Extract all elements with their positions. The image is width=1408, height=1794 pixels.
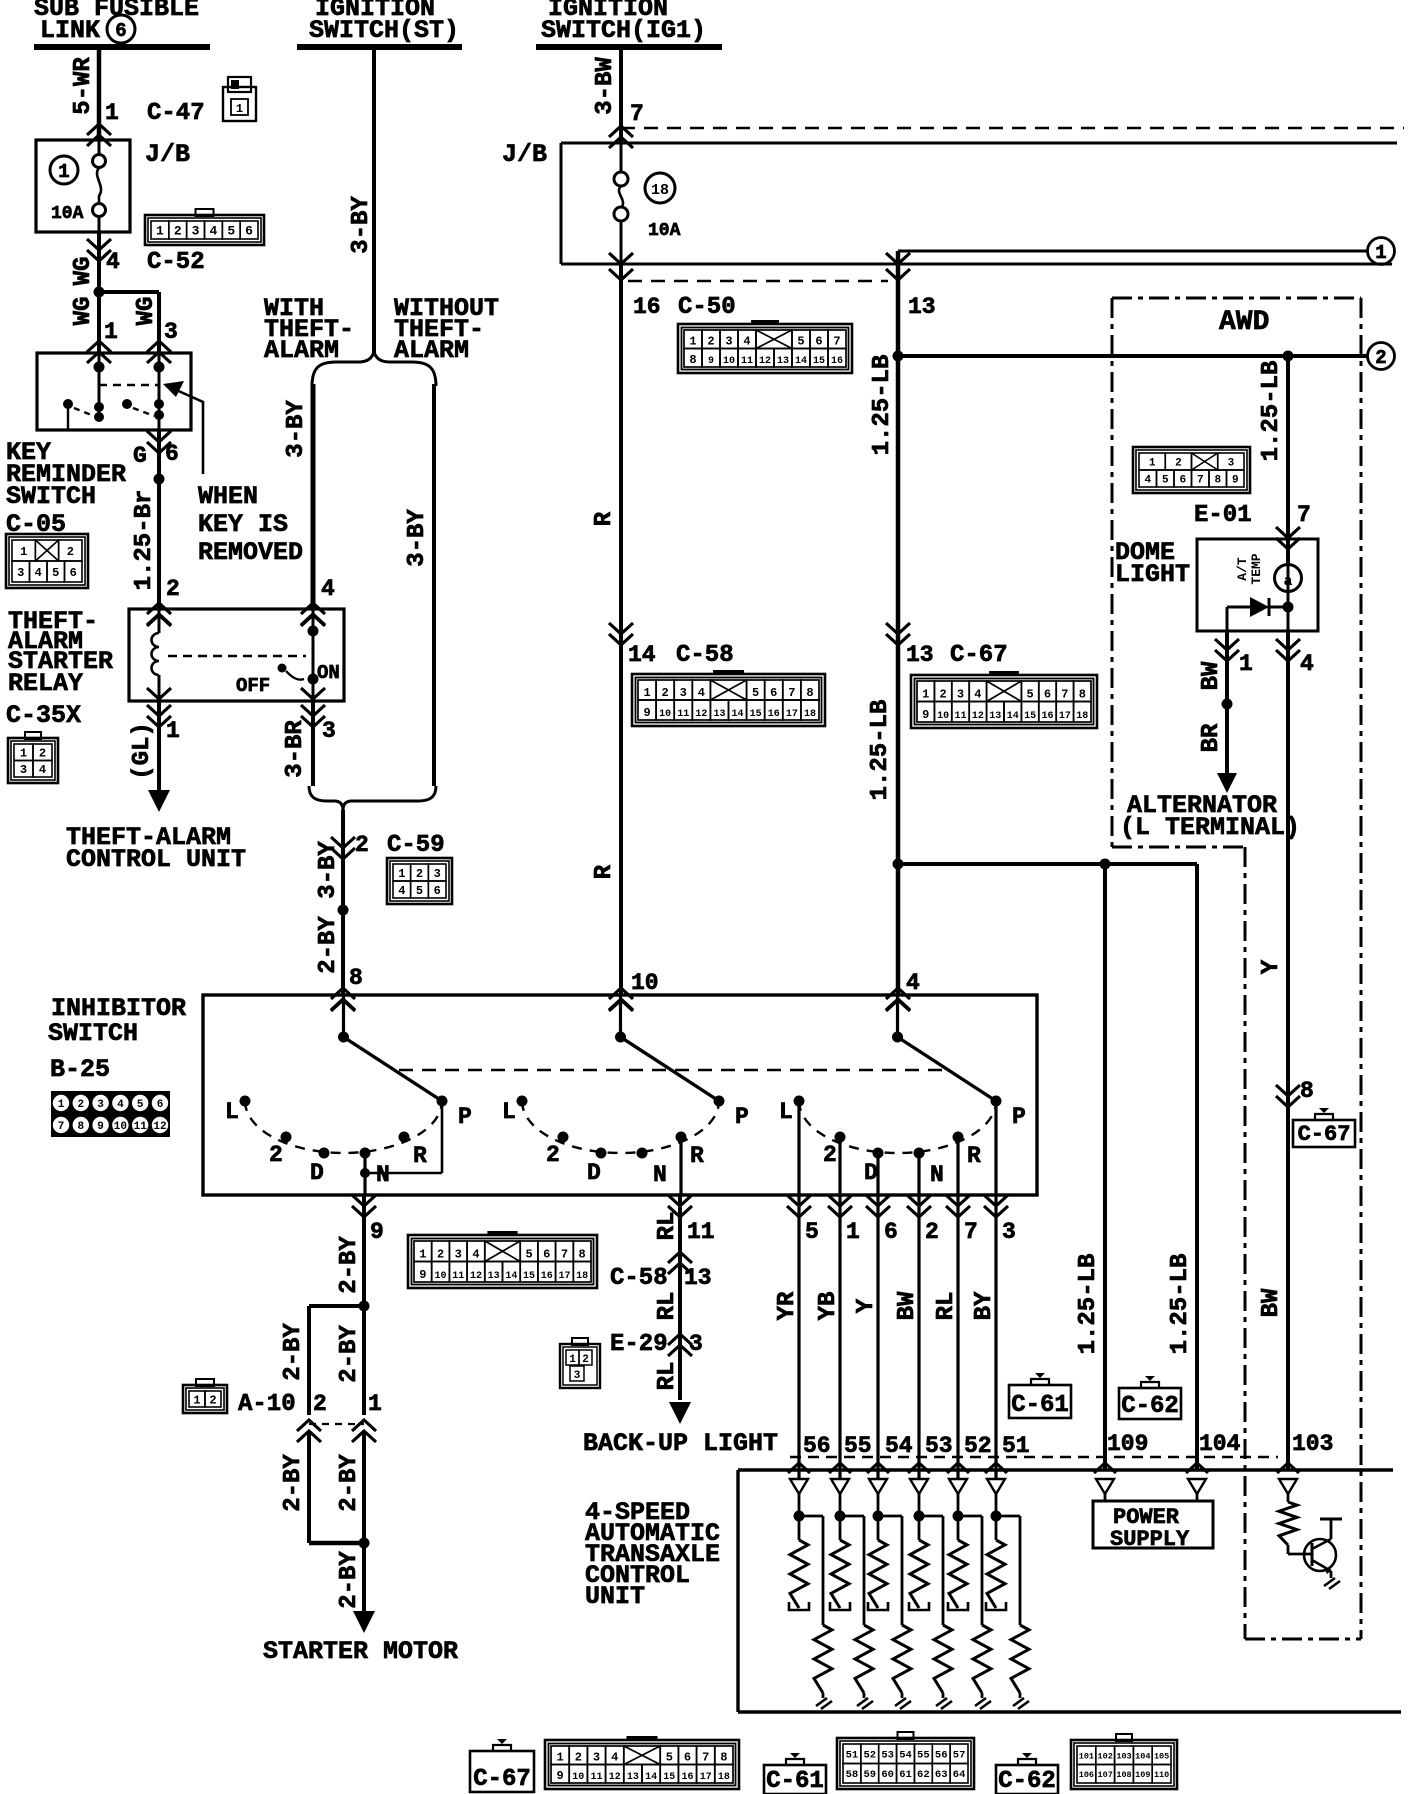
svg-text:1.25-LB: 1.25-LB [1167,1254,1194,1355]
transistor Q1 with base resistor [1279,1479,1342,1589]
svg-text:2: 2 [174,224,182,239]
svg-text:RL: RL [654,1212,681,1241]
junction block J/B box (right) [502,140,1397,264]
svg-text:13: 13 [908,294,936,320]
svg-text:104: 104 [1199,1431,1241,1457]
label INHIBITOR SWITCH B-25 [48,994,186,1084]
svg-text:3: 3 [192,224,200,239]
brace join theft alarm [309,786,436,810]
svg-text:1: 1 [368,1391,382,1417]
svg-text:C-62: C-62 [1121,1393,1179,1420]
svg-text:2-BY: 2-BY [280,1454,307,1512]
svg-text:4: 4 [698,686,705,700]
svg-text:1.25-LB: 1.25-LB [867,700,894,801]
svg-text:7: 7 [561,1248,568,1262]
svg-text:15: 15 [813,356,825,367]
inhibitor pin 11 [668,1195,715,1245]
svg-text:A-10: A-10 [238,1391,296,1418]
svg-text:RELAY: RELAY [8,669,83,698]
svg-text:SWITCH: SWITCH [6,482,96,511]
connector C-50 icon [678,320,852,373]
svg-text:1.25-Br: 1.25-Br [131,490,158,591]
wire 5-WR from sub fusible link [70,47,99,140]
svg-text:10: 10 [435,1271,447,1282]
svg-text:17: 17 [1059,711,1071,722]
node THEFT-ALARM CONTROL UNIT label [66,823,246,874]
svg-text:RL: RL [933,1292,960,1321]
svg-text:KEY IS: KEY IS [198,510,288,539]
svg-text:10: 10 [659,709,671,720]
svg-text:6: 6 [1179,474,1186,486]
svg-text:15: 15 [750,709,762,720]
svg-text:15: 15 [523,1271,535,1282]
wire 2-BY from pin 9 [336,1195,364,1306]
inhibitor pin 7 [946,1195,978,1245]
svg-text:11: 11 [954,711,966,722]
svg-text:2: 2 [546,1142,560,1168]
svg-text:6: 6 [684,1751,691,1765]
svg-text:(L TERMINAL): (L TERMINAL) [1120,813,1300,842]
svg-text:57: 57 [953,1750,966,1762]
svg-text:16: 16 [633,294,661,320]
svg-text:10: 10 [723,356,735,367]
svg-text:51: 51 [1002,1433,1030,1459]
wire BY into control unit x996 [971,1195,1007,1479]
svg-text:6: 6 [434,884,441,898]
svg-text:BW: BW [1258,1288,1285,1317]
fuse 18 10A [614,143,681,264]
svg-text:3-BY: 3-BY [404,509,431,567]
connector C-67 tab icon bottom [470,1739,534,1793]
svg-text:7: 7 [1061,688,1068,702]
junction 1.25-LB branch [893,859,1198,870]
4-speed automatic transaxle control unit box [738,1470,1401,1712]
node 2 link wire [893,343,1395,370]
inhibitor switch box [203,995,1037,1195]
svg-text:14: 14 [645,1772,657,1783]
relay pin 1 exit [147,688,180,744]
node BACK-UP LIGHT label [583,1429,778,1458]
power supply box [1093,1501,1213,1552]
svg-text:12: 12 [609,1772,621,1783]
svg-text:2: 2 [209,1393,216,1407]
svg-text:UNIT: UNIT [585,1582,645,1611]
svg-text:13: 13 [488,1271,500,1282]
power supply wires [1096,1479,1206,1501]
svg-text:5: 5 [1026,688,1033,702]
svg-text:P: P [458,1104,472,1130]
svg-text:BR: BR [1198,723,1225,752]
svg-text:5: 5 [137,1099,144,1111]
svg-text:B-25: B-25 [50,1055,110,1084]
svg-text:2: 2 [925,1219,939,1245]
svg-text:2: 2 [269,1142,283,1168]
svg-text:3-BY: 3-BY [348,196,375,254]
svg-text:56: 56 [803,1433,831,1459]
svg-text:51: 51 [846,1750,859,1762]
svg-text:2: 2 [166,576,180,602]
svg-text:WG: WG [70,257,97,286]
wire 2-BY right lower [336,1432,364,1543]
svg-text:11: 11 [741,356,753,367]
svg-text:C-61: C-61 [766,1768,824,1794]
dome light pin 1 [1215,639,1253,677]
connector C-62 tab icon bottom [996,1753,1058,1794]
svg-text:5: 5 [666,1751,673,1765]
svg-text:3: 3 [434,867,441,881]
svg-text:3-BY: 3-BY [283,400,310,458]
connector icon 18pin bottom [545,1736,739,1789]
svg-text:1: 1 [398,867,405,881]
connector C-61 tab icon upper [1009,1373,1071,1419]
svg-text:3-BR: 3-BR [282,720,309,778]
svg-text:(GL): (GL) [129,722,156,780]
svg-text:BW: BW [894,1291,921,1320]
svg-text:5: 5 [52,566,59,580]
svg-text:4: 4 [1300,651,1314,677]
sub fusible link bus bar [34,44,210,50]
svg-text:10A: 10A [648,221,681,241]
svg-text:LIGHT: LIGHT [1115,560,1190,589]
svg-text:11: 11 [677,709,689,720]
svg-text:C-67: C-67 [473,1766,531,1793]
svg-text:SWITCH(IG1): SWITCH(IG1) [541,16,706,45]
svg-text:1: 1 [156,224,164,239]
svg-text:1: 1 [166,718,180,744]
svg-text:C-59: C-59 [387,832,445,859]
svg-text:4: 4 [321,576,335,602]
svg-text:1: 1 [569,1354,576,1366]
svg-text:4: 4 [35,566,42,580]
svg-text:64: 64 [953,1769,966,1781]
connector E-29 icon [560,1338,600,1388]
svg-text:18: 18 [718,1772,730,1783]
svg-text:11: 11 [590,1772,602,1783]
svg-text:2-BY: 2-BY [280,1323,307,1381]
connector E-29 pin 3 [610,1331,703,1358]
svg-text:52: 52 [863,1750,876,1762]
wire WG left branch label [70,297,118,345]
svg-text:13: 13 [713,709,725,720]
svg-text:ON: ON [317,662,340,684]
svg-text:5: 5 [525,1248,532,1262]
svg-text:9: 9 [1232,474,1239,486]
dome light pin 4 [1276,639,1314,677]
relay pin 3 exit [301,688,336,744]
connector 101-110 icon [1071,1734,1177,1789]
connector C-52 icon [145,209,264,245]
wire to inhibitor pin 4 [886,970,920,1011]
svg-text:L: L [779,1099,793,1125]
svg-text:7: 7 [630,101,644,127]
svg-text:L: L [502,1099,516,1125]
svg-text:18: 18 [651,182,669,199]
connector C-59 icon [387,858,452,904]
dome light pin wires [1227,564,1288,631]
svg-text:3: 3 [574,1370,581,1382]
svg-text:SWITCH(ST): SWITCH(ST) [309,16,459,45]
svg-text:C-67: C-67 [1298,1122,1351,1147]
arrow 109 into unit [1094,1463,1116,1473]
resistor pair pin x840 [830,1479,873,1709]
connector C-67 icon upper [911,671,1097,728]
svg-text:SWITCH: SWITCH [48,1019,138,1048]
svg-text:RL: RL [654,1362,681,1391]
connector C-50 dashed line [628,281,888,321]
svg-text:7: 7 [1197,474,1204,486]
arrow 103 into unit [1277,1463,1299,1473]
svg-text:2-BY: 2-BY [315,916,342,974]
svg-text:L: L [225,1099,239,1125]
svg-text:12: 12 [470,1271,482,1282]
svg-text:9: 9 [370,1219,384,1245]
svg-text:Y: Y [853,1298,880,1313]
svg-text:1: 1 [922,688,929,702]
svg-text:13: 13 [627,1772,639,1783]
node 1 link wire [898,238,1395,265]
connector C-52 pin 4 arrows [87,239,205,276]
connector C-35X icon [8,732,58,783]
svg-text:8: 8 [720,1751,727,1765]
connector C-62 tab icon upper [1119,1376,1181,1420]
svg-text:6: 6 [115,20,126,42]
svg-text:REMOVED: REMOVED [198,538,303,567]
svg-text:2: 2 [1175,457,1182,469]
svg-text:1: 1 [1239,651,1253,677]
svg-text:1: 1 [104,319,118,345]
junction block J/B pin 7 [609,101,644,148]
svg-text:C-47: C-47 [147,100,205,127]
svg-text:R: R [591,511,618,526]
resistor pair pin x799 [789,1479,832,1709]
svg-text:14: 14 [732,709,744,720]
wire 3-BY without theft alarm branch [404,384,434,786]
theft-alarm starter relay pin 2 [147,576,180,626]
connector C-67 tab icon right [1293,1108,1355,1147]
connector C-67 pin 13 arrows [886,623,1008,669]
ignition switch ST bus bar [297,44,462,50]
svg-text:8: 8 [77,1121,84,1133]
svg-text:4: 4 [743,335,750,349]
inhibitor switch fan 1 (L 2 D N R P) [225,995,472,1195]
fuse 1 10A [50,140,106,232]
svg-text:10: 10 [572,1772,584,1783]
svg-text:3: 3 [680,686,687,700]
svg-text:16: 16 [831,356,843,367]
key reminder switch contacts left [63,353,105,430]
svg-text:9: 9 [708,356,714,367]
wire 2-BY left branch [280,1306,309,1415]
svg-text:10: 10 [937,711,949,722]
svg-text:N: N [653,1162,667,1188]
wire WG right branch label [133,297,178,345]
svg-text:2: 2 [823,1142,837,1168]
node STARTER MOTOR label [263,1637,458,1666]
svg-text:2: 2 [437,1248,444,1262]
svg-text:15: 15 [663,1772,675,1783]
svg-text:2-BY: 2-BY [336,1551,363,1609]
svg-text:2: 2 [707,335,714,349]
svg-text:5: 5 [797,335,804,349]
wire 1.25-LB to pin 104 [1167,864,1197,1470]
svg-text:6: 6 [543,1248,550,1262]
connector A-10 pins [238,1391,382,1418]
svg-text:6: 6 [70,566,77,580]
inhibitor pin 1 [828,1195,860,1245]
svg-text:RL: RL [654,1292,681,1321]
svg-text:D: D [864,1160,878,1186]
svg-text:2: 2 [67,545,74,559]
svg-text:11: 11 [452,1271,464,1282]
label A/T TEMP [1235,553,1264,584]
svg-text:4: 4 [611,1751,618,1765]
connector C-61 tab icon bottom [764,1753,826,1794]
svg-text:3: 3 [689,1331,703,1357]
wire 1.25-LB to pin 109 [1075,864,1105,1470]
svg-text:13: 13 [989,711,1001,722]
wire 2-BY left lower [280,1432,309,1543]
svg-text:17: 17 [786,709,798,720]
svg-text:61: 61 [899,1769,912,1781]
svg-text:52: 52 [964,1433,992,1459]
connector C-50 pin 16 arrows [609,253,661,320]
note WHEN KEY IS REMOVED [198,482,303,567]
svg-text:8: 8 [806,686,813,700]
svg-text:2: 2 [313,1391,327,1417]
dome light bulb [1275,565,1302,592]
svg-text:55: 55 [917,1750,930,1762]
svg-text:106: 106 [1079,1770,1094,1780]
svg-text:6: 6 [770,686,777,700]
svg-text:C-61: C-61 [1011,1392,1069,1419]
label KEY REMINDER SWITCH C-05 [6,438,126,539]
svg-text:2: 2 [662,686,669,700]
svg-text:6: 6 [245,224,253,239]
svg-text:2: 2 [1375,347,1386,369]
wire 3-BY 2-BY to inhibitor switch [315,841,363,1011]
svg-text:P: P [1012,1104,1026,1130]
svg-text:14: 14 [1007,711,1019,722]
svg-text:D: D [310,1160,324,1186]
svg-text:108: 108 [1116,1770,1131,1780]
svg-text:P: P [735,1104,749,1130]
svg-text:110: 110 [1154,1770,1169,1780]
svg-text:12: 12 [759,356,771,367]
svg-text:4: 4 [974,688,981,702]
wire 3-BY from ignition ST [348,47,375,353]
svg-text:TEMP: TEMP [1249,553,1264,584]
connector C-67 pin 8 [1276,1078,1314,1107]
svg-text:10: 10 [631,970,659,996]
wire BW BR to alternator [1198,631,1237,793]
wire (GL) to theft-alarm control unit [129,701,170,812]
key reminder switch entry arrows [87,341,171,363]
svg-text:59: 59 [863,1769,876,1781]
svg-text:C-52: C-52 [147,249,205,276]
svg-text:E-01: E-01 [1194,502,1252,529]
svg-text:N: N [376,1162,390,1188]
svg-text:62: 62 [917,1769,930,1781]
wire RL to back-up light [654,1362,691,1424]
connector E-01 pin 7 [1194,502,1311,549]
svg-text:7: 7 [58,1121,65,1133]
connector C-58 pin 14 arrows [609,623,734,669]
svg-text:2-BY: 2-BY [336,1236,363,1294]
svg-text:5-WR: 5-WR [70,57,97,115]
wire 2-BY right branch [336,1306,364,1415]
svg-text:8: 8 [1214,474,1221,486]
svg-text:103: 103 [1292,1431,1333,1457]
svg-text:4: 4 [106,249,120,275]
svg-text:3: 3 [957,688,964,702]
svg-text:R: R [967,1143,981,1169]
svg-text:7: 7 [702,1751,709,1765]
svg-text:9: 9 [97,1121,104,1133]
control unit dashed connector line [790,1456,1278,1459]
connector C-05 icon [6,534,88,588]
svg-text:4: 4 [210,224,218,239]
svg-text:102: 102 [1098,1751,1113,1761]
svg-text:8: 8 [579,1248,586,1262]
node IGNITION SWITCH (IG1) label [541,0,706,45]
svg-text:56: 56 [935,1750,948,1762]
wire RL into control unit x958 [933,1195,969,1479]
arrow 104 into unit [1186,1463,1208,1473]
svg-text:1: 1 [643,686,650,700]
svg-text:101: 101 [1079,1751,1094,1761]
svg-text:BY: BY [971,1291,998,1320]
svg-text:ALARM: ALARM [264,336,339,365]
svg-text:G: G [133,443,147,469]
svg-text:8: 8 [1300,1078,1314,1104]
dome light box [1115,538,1318,631]
svg-text:2: 2 [355,832,369,858]
inhibitor switch fan 3 [779,995,1026,1195]
svg-text:4: 4 [906,970,920,996]
svg-text:C-58: C-58 [610,1265,668,1292]
svg-text:16: 16 [1041,711,1053,722]
inhibitor pin 5 [787,1195,819,1245]
svg-text:4: 4 [1144,474,1151,486]
svg-text:1: 1 [556,1751,563,1765]
svg-text:A/T: A/T [1235,557,1250,581]
svg-text:BW: BW [1198,661,1225,690]
svg-text:4: 4 [39,763,46,777]
connector C-58 icon lower [408,1231,597,1288]
svg-text:8: 8 [349,965,363,991]
svg-text:6: 6 [1044,688,1051,702]
svg-text:12: 12 [695,709,707,720]
svg-text:2: 2 [575,1751,582,1765]
svg-text:6: 6 [815,335,822,349]
svg-text:R: R [690,1143,704,1169]
svg-text:C-50: C-50 [678,294,736,321]
svg-text:7: 7 [788,686,795,700]
svg-text:Y: Y [1258,959,1285,974]
node SUB FUSIBLE LINK 6 label [34,0,199,45]
svg-text:16: 16 [681,1772,693,1783]
svg-text:1: 1 [1149,457,1156,469]
svg-text:C-35X: C-35X [6,701,81,730]
wire Y into control unit x878 [853,1195,889,1479]
svg-text:6: 6 [165,441,179,467]
wire 1.25-LB mid [867,700,894,801]
svg-text:J/B: J/B [145,140,190,169]
wire RL mid [654,1292,681,1321]
wire 13 from J/B [869,251,936,995]
key reminder switch linkage dashed [99,384,159,386]
svg-text:J/B: J/B [502,140,547,169]
